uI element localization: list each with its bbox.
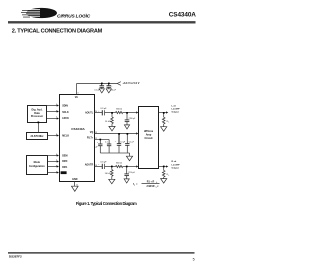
wire VQ	[94, 133, 136, 135]
footer rule	[8, 252, 195, 253]
svg-text:0.1 µF: 0.1 µF	[94, 90, 100, 92]
svg-text:MCLK: MCLK	[62, 135, 69, 138]
resistor R1 10k	[111, 113, 114, 127]
svg-text:+: +	[98, 164, 100, 166]
ground	[99, 89, 104, 93]
svg-text:6: 6	[56, 110, 57, 112]
svg-text:560 Ω: 560 Ω	[116, 108, 122, 110]
capacitor C9 3.3uF	[102, 164, 104, 169]
ground	[124, 125, 129, 129]
svg-text:VA: VA	[75, 96, 78, 99]
svg-text:Circuit: Circuit	[145, 137, 153, 140]
svg-text:Line/HP: Line/HP	[172, 164, 181, 166]
svg-text:CS4340A: CS4340A	[169, 11, 196, 18]
wire GND pin	[74, 181, 76, 186]
svg-text:LRCK: LRCK	[62, 117, 69, 120]
capacitor C2 10uF	[107, 84, 112, 89]
svg-text:DEM: DEM	[62, 155, 67, 158]
svg-text:c: c	[134, 185, 135, 187]
box texts	[29, 108, 154, 167]
svg-text:5: 5	[56, 104, 57, 106]
IC U1 CS4340A	[60, 95, 95, 182]
svg-text:2700 pF: 2700 pF	[128, 172, 135, 174]
svg-text:13: 13	[95, 132, 97, 134]
svg-text:5: 5	[193, 258, 195, 262]
svg-text:560 Ω: 560 Ω	[116, 162, 122, 164]
svg-text:SDIN: SDIN	[62, 105, 68, 108]
svg-text:10 µF: 10 µF	[120, 141, 126, 143]
capacitor C7 10uF	[117, 134, 121, 154]
svg-text:7: 7	[56, 116, 57, 118]
wire RST	[47, 172, 57, 174]
ground	[106, 89, 111, 93]
svg-text:Processor: Processor	[31, 115, 43, 118]
wire SCLK arrow	[57, 110, 59, 112]
capacitor C4 2700pF	[125, 113, 130, 125]
node node R2	[126, 166, 128, 168]
capacitor C5 1uF	[98, 140, 102, 154]
arrowheads into IC	[57, 104, 169, 173]
svg-text:CS4340A: CS4340A	[71, 127, 85, 131]
wire L out arrow	[166, 111, 168, 113]
node VA junction 2	[108, 83, 110, 85]
svg-text:10 µF: 10 µF	[111, 90, 117, 92]
node node out R	[163, 166, 165, 168]
svg-text:Figure 1. Typical Connection D: Figure 1. Typical Connection Diagram	[76, 201, 137, 206]
svg-text:11: 11	[76, 184, 78, 186]
node node out L	[163, 112, 165, 114]
capacitor C1 0.1uF	[100, 84, 105, 89]
wire AOUTL	[94, 112, 102, 114]
svg-text:R ch: R ch	[172, 161, 177, 163]
ground	[161, 127, 167, 132]
capacitor C10 2700pF	[124, 167, 129, 179]
resistor R4 560	[116, 165, 123, 167]
supply arrow +3.3V to 5.0V	[117, 82, 121, 86]
svg-text:Configuration: Configuration	[29, 165, 45, 168]
svg-text:2πR1R: 2πR1R	[147, 185, 155, 188]
svg-text:2. TYPICAL CONNECTION DIAGRAM: 2. TYPICAL CONNECTION DIAGRAM	[12, 28, 103, 34]
svg-text:AOUTR: AOUTR	[85, 164, 94, 167]
wire SDIN	[47, 105, 58, 107]
ground	[161, 179, 167, 184]
resistor R3 10k	[111, 167, 114, 180]
wire FILT+	[94, 139, 109, 141]
ground	[126, 156, 132, 161]
svg-text:R1 + R: R1 + R	[147, 181, 155, 184]
node node L2	[126, 112, 128, 114]
svg-text:12: 12	[95, 138, 97, 140]
wire DEM arrow	[57, 154, 59, 156]
capacitor C3 3.3uF	[102, 110, 104, 115]
output labels	[172, 106, 181, 170]
wire R out arrow	[166, 165, 168, 167]
wire DIF0	[47, 161, 57, 163]
op-amp block HP/Line amp circuit	[139, 107, 159, 169]
svg-text:+: +	[115, 141, 117, 143]
ground	[109, 179, 115, 184]
wire SDIN arrow	[57, 104, 59, 106]
wire R in arrow	[136, 165, 138, 167]
svg-text:DS287F2: DS287F2	[9, 254, 22, 258]
svg-text:Output: Output	[172, 166, 179, 169]
svg-text:L: L	[168, 122, 169, 124]
box: mode configuration	[27, 156, 48, 175]
node node L1	[111, 112, 113, 114]
svg-text:3: 3	[56, 165, 57, 167]
wire MCLK	[47, 135, 57, 137]
resistor RL load right	[162, 167, 165, 179]
ground	[72, 186, 79, 191]
Cirrus Logic logo	[21, 8, 91, 20]
wire LRCK	[47, 118, 58, 120]
svg-text:DIF0: DIF0	[62, 160, 68, 163]
svg-text:9: 9	[56, 154, 57, 156]
wire	[105, 166, 116, 168]
svg-text:2: 2	[56, 160, 57, 162]
capacitor C8 0.1uF	[125, 134, 129, 154]
wire	[123, 166, 136, 168]
ground	[124, 179, 129, 183]
wire clock to processor	[38, 122, 40, 132]
node VQ junction 1	[118, 133, 120, 135]
wire MCLK arrow	[57, 134, 59, 136]
resistor RL load left	[162, 113, 165, 127]
wire VA supply rail	[77, 83, 118, 85]
capacitor C6 0.1uF	[107, 140, 111, 154]
svg-text:+: +	[111, 85, 113, 87]
wire RST arrow	[57, 171, 59, 173]
svg-text:0.1 µF: 0.1 µF	[129, 141, 135, 143]
wire DIF1 arrow	[57, 165, 59, 167]
wire line out R	[159, 166, 167, 168]
IC pin labels	[62, 96, 94, 181]
svg-text:3.3 µF: 3.3 µF	[100, 108, 107, 110]
svg-text:AOUTL: AOUTL	[85, 112, 94, 115]
wire DIF0 arrow	[57, 160, 59, 162]
resistor R2 560	[116, 111, 123, 113]
svg-text:1: 1	[56, 171, 57, 173]
wire	[123, 112, 136, 114]
svg-text:GND: GND	[72, 178, 78, 181]
svg-text:Line/HP: Line/HP	[172, 109, 181, 111]
svg-text:=: =	[136, 183, 138, 186]
svg-text:L ch: L ch	[172, 106, 177, 108]
wire	[105, 112, 116, 114]
svg-text:FILT+: FILT+	[87, 137, 94, 140]
wire LRCK arrow	[57, 117, 59, 119]
value labels	[94, 82, 169, 177]
svg-text:VQ: VQ	[90, 131, 94, 134]
wire AOUTR	[94, 166, 102, 168]
wire ground bus	[100, 153, 129, 156]
node node R1	[111, 166, 113, 168]
svg-text:0.1: 0.1	[105, 142, 108, 144]
header rule	[8, 21, 196, 23]
svg-text:SCLK: SCLK	[62, 111, 69, 114]
svg-text:18: 18	[95, 165, 97, 167]
node FILT+ junction	[100, 139, 102, 141]
box: clock source 24.576 MHz	[27, 133, 48, 140]
svg-text:2700 pF: 2700 pF	[129, 118, 136, 120]
pin RST (overline bar)	[61, 171, 67, 174]
formula fc	[133, 181, 160, 189]
pin numbers	[56, 93, 97, 187]
wire DEM	[47, 155, 57, 157]
svg-text:L: L	[168, 175, 169, 177]
svg-text:24.576 MHz: 24.576 MHz	[31, 135, 45, 138]
node clock junction	[38, 122, 40, 124]
svg-text:20: 20	[95, 111, 97, 113]
box: audio data processor	[28, 106, 47, 123]
wire SCLK	[47, 111, 58, 113]
svg-text:4: 4	[77, 93, 78, 95]
svg-text:+3.3 V to 5.0 V: +3.3 V to 5.0 V	[123, 82, 140, 85]
ground	[109, 126, 115, 130]
svg-text:10 kΩ: 10 kΩ	[105, 121, 111, 123]
svg-text:3.3 µF: 3.3 µF	[100, 162, 107, 164]
wire L in arrow	[136, 111, 138, 113]
svg-text:Mode: Mode	[34, 161, 41, 164]
node VA junction 1	[101, 83, 103, 85]
wire line out L	[159, 112, 167, 114]
node VQ junction 2	[127, 133, 129, 135]
wire DIF1	[47, 166, 57, 168]
svg-text:1 µF: 1 µF	[94, 147, 99, 149]
svg-text:10 kΩ: 10 kΩ	[105, 173, 111, 175]
wire VQ arrow	[136, 132, 138, 134]
svg-text:Output: Output	[172, 111, 179, 114]
svg-text:C: C	[157, 186, 159, 188]
svg-text:DIF1: DIF1	[62, 166, 68, 169]
junction dots	[38, 83, 165, 168]
svg-text:8: 8	[56, 134, 57, 136]
